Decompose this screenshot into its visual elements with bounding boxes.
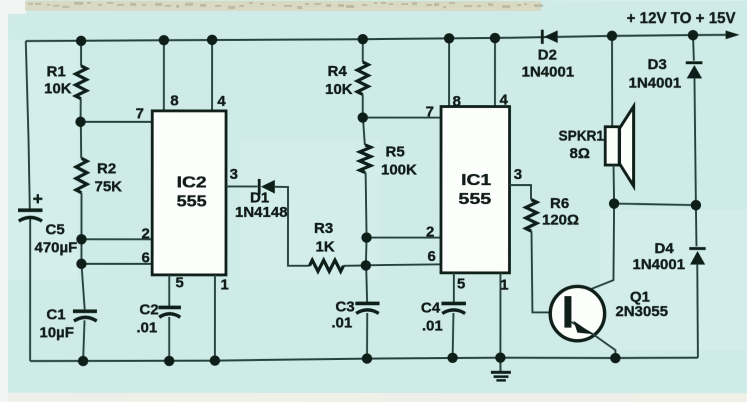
- svg-text:+ 12V TO + 15V: + 12V TO + 15V: [627, 10, 736, 27]
- node junction 15: [609, 198, 619, 208]
- wire right rail mid (D3 to D4): [694, 78, 696, 246]
- resistor R2: [76, 158, 87, 193]
- wire R1 bottom lead to node: [80, 99, 82, 122]
- node junction 23: [610, 353, 620, 363]
- capacitor C5: [18, 208, 42, 212]
- node junction 11: [76, 234, 86, 244]
- resistor R1: [76, 66, 87, 99]
- svg-text:4: 4: [500, 92, 509, 109]
- wire C1 bottom lead: [83, 320, 84, 361]
- svg-text:10K: 10K: [325, 81, 353, 98]
- node junction 1: [76, 36, 86, 46]
- svg-text:R1: R1: [47, 64, 66, 81]
- resistor R4: [357, 62, 368, 95]
- node junction 20: [362, 353, 372, 363]
- svg-text:1N4001: 1N4001: [632, 256, 685, 273]
- wire IC2 pin 4: [211, 40, 213, 111]
- svg-text:D3: D3: [648, 56, 667, 73]
- wire right rail top (to D3): [692, 35, 695, 61]
- svg-text:8: 8: [170, 92, 178, 109]
- node junction 12: [76, 259, 86, 269]
- node junction 5: [444, 33, 454, 43]
- svg-text:1N4001: 1N4001: [629, 75, 682, 92]
- wire node to R5: [363, 118, 365, 145]
- wire IC2 pin 5 to C2: [168, 275, 170, 307]
- wire IC1 pin 2: [367, 237, 441, 239]
- supply arrowhead: [726, 30, 740, 39]
- node junction 21: [447, 353, 457, 363]
- svg-text:IC1: IC1: [461, 172, 491, 189]
- svg-text:4: 4: [217, 93, 226, 110]
- wire C4 bottom lead: [452, 313, 455, 358]
- wire pin2 node to pin6 node: [80, 239, 82, 264]
- svg-text:6: 6: [427, 248, 435, 265]
- wire node to R2: [80, 122, 82, 159]
- wire IC2 pin 7: [81, 121, 153, 123]
- wire IC2 pin 6: [81, 263, 152, 265]
- wire IC1 pin 8: [448, 38, 450, 106]
- svg-text:R4: R4: [328, 63, 348, 80]
- svg-text:3: 3: [514, 166, 522, 183]
- wire speaker top lead: [611, 36, 613, 127]
- node junction 19: [210, 355, 220, 365]
- svg-text:5: 5: [457, 276, 465, 293]
- svg-text:1: 1: [220, 277, 228, 294]
- ground: [499, 358, 501, 371]
- svg-text:IC2: IC2: [177, 174, 207, 191]
- svg-text:470µF: 470µF: [34, 239, 77, 256]
- svg-text:10K: 10K: [44, 80, 72, 97]
- node junction 2: [159, 35, 169, 45]
- svg-text:3: 3: [230, 166, 238, 183]
- capacitor C4: [441, 302, 466, 306]
- svg-text:8: 8: [453, 93, 461, 110]
- wire Q1 collector: [571, 204, 614, 297]
- node junction 16: [691, 200, 701, 210]
- wire C2 bottom lead: [168, 317, 170, 361]
- svg-text:C3: C3: [335, 298, 354, 315]
- resistor R3: [309, 260, 343, 271]
- wire left rail lower (C5 to bottom): [29, 218, 31, 361]
- wire left rail upper (to C5): [26, 41, 30, 209]
- wire IC1 pin 1: [499, 273, 501, 358]
- svg-text:1: 1: [500, 277, 508, 294]
- capacitor C3: [355, 302, 379, 306]
- node junction 9: [75, 117, 85, 127]
- svg-text:SPKR1: SPKR1: [559, 128, 605, 145]
- svg-text:R6: R6: [550, 195, 569, 212]
- wire IC1 pin 4: [494, 38, 496, 107]
- wire R1 top lead: [80, 41, 82, 66]
- Q1 emitter arrow: [573, 321, 593, 335]
- wire right rail bottom (D4 to ground rail): [696, 265, 699, 358]
- node junction 17: [78, 356, 88, 366]
- capacitor C1: [73, 309, 97, 313]
- node junction 4: [358, 34, 368, 44]
- svg-text:.01: .01: [331, 314, 352, 331]
- node junction 22: [495, 352, 505, 362]
- svg-text:2N3055: 2N3055: [615, 303, 668, 320]
- svg-text:C5: C5: [45, 221, 64, 238]
- svg-text:7: 7: [426, 104, 434, 121]
- wire IC1 pin 7: [363, 117, 441, 119]
- wire node down to C3: [366, 265, 367, 303]
- wire R3 to node: [343, 264, 365, 266]
- wire IC2 pin 2: [81, 238, 152, 240]
- svg-text:555: 555: [177, 193, 207, 210]
- svg-text:.01: .01: [136, 319, 157, 336]
- wire collector node to right rail: [614, 204, 696, 206]
- svg-text:75K: 75K: [95, 178, 123, 195]
- resistor R5: [360, 145, 371, 173]
- svg-text:1K: 1K: [315, 238, 334, 255]
- svg-text:D4: D4: [654, 240, 674, 257]
- wire pin2 node to pin6 node: [365, 238, 368, 266]
- wire R4 to pin7 node: [362, 94, 364, 117]
- svg-text:.01: .01: [422, 318, 443, 335]
- node junction 18: [164, 356, 174, 366]
- wire pin6 node down to C1: [81, 264, 84, 310]
- svg-text:2: 2: [141, 225, 149, 242]
- node junction 13: [361, 232, 371, 242]
- wire IC2 pin 8: [163, 40, 165, 111]
- svg-text:6: 6: [141, 249, 149, 266]
- diode D1: [258, 179, 261, 195]
- op IC1 555 body: [441, 107, 510, 273]
- node junction 10: [358, 112, 368, 122]
- node junction 8: [688, 30, 698, 40]
- svg-text:8Ω: 8Ω: [570, 145, 590, 162]
- speaker SPKR1: [605, 127, 619, 165]
- node junction 7: [607, 31, 617, 41]
- svg-text:R2: R2: [97, 160, 116, 177]
- wire IC1 pin 5 to C4: [453, 273, 455, 303]
- svg-text:1N4148: 1N4148: [235, 204, 288, 221]
- svg-text:10µF: 10µF: [39, 324, 74, 341]
- wire top +V supply rail: [26, 34, 728, 41]
- diode D3: [686, 61, 703, 64]
- wire IC2 pin 3: [226, 186, 258, 188]
- svg-text:R5: R5: [386, 144, 405, 161]
- wire R5 to pin2 node: [366, 172, 367, 237]
- transistor Q1: [550, 286, 604, 340]
- wire speaker bottom lead: [612, 165, 615, 204]
- svg-text:7: 7: [136, 105, 144, 122]
- svg-text:R3: R3: [314, 220, 333, 237]
- svg-text:120Ω: 120Ω: [542, 212, 579, 229]
- wire IC2 pin 1: [214, 275, 216, 361]
- wire R6 to Q1 base: [531, 231, 563, 312]
- wire D1 to R3 elbow: [275, 187, 310, 266]
- capacitor C5 plus sign: [37, 194, 39, 203]
- diode D2: [541, 30, 544, 44]
- node junction 6: [490, 33, 500, 43]
- resistor R6: [526, 200, 537, 232]
- svg-text:2: 2: [426, 224, 434, 241]
- svg-text:C1: C1: [46, 306, 65, 323]
- svg-text:1N4001: 1N4001: [522, 64, 575, 81]
- wire R2 to pin2 node: [80, 193, 82, 239]
- node junction 14: [361, 260, 371, 270]
- wire IC1 pin 6: [366, 264, 441, 265]
- wire C3 bottom lead: [366, 313, 368, 359]
- node junction 3: [207, 35, 217, 45]
- wire IC1 pin 3 to R6: [510, 185, 532, 200]
- diode D4: [689, 247, 705, 250]
- svg-text:5: 5: [175, 274, 183, 291]
- svg-text:C4: C4: [421, 300, 441, 317]
- capacitor C2: [158, 306, 181, 310]
- svg-text:C2: C2: [139, 301, 158, 318]
- wire Q1 emitter: [571, 322, 615, 358]
- svg-text:100K: 100K: [381, 162, 417, 179]
- op IC2 555 body: [152, 111, 226, 275]
- wire R4 top lead: [362, 39, 364, 62]
- svg-text:555: 555: [458, 191, 491, 208]
- svg-text:D2: D2: [538, 47, 557, 64]
- wire bottom ground rail: [30, 357, 698, 361]
